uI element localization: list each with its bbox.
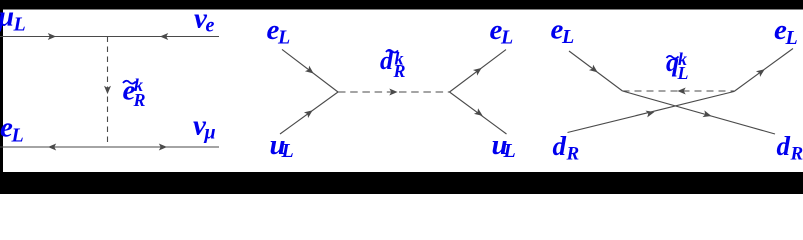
arrow d3 top-left leg — [589, 65, 600, 76]
arrow d3 lower line toward V2 — [646, 109, 656, 118]
arrow d1 top-left (right) — [48, 33, 56, 40]
squark propagator diagram2 (dashed horizontal) — [338, 91, 450, 93]
svg-text:L: L — [561, 26, 574, 48]
svg-text:R: R — [790, 144, 803, 165]
arrow d2 top-right leg — [473, 65, 484, 76]
bottom black strip — [0, 172, 803, 194]
svg-text:e: e — [206, 15, 215, 37]
wire: diagram3 long leg from bottom-left — [568, 92, 735, 133]
svg-text:d: d — [553, 131, 567, 161]
wire: diagram2 top-right leg — [450, 50, 507, 92]
svg-text:L: L — [503, 140, 516, 162]
wire: diagram2 top-left leg — [282, 49, 338, 92]
svg-text:R: R — [566, 144, 580, 165]
label sdown d~R^k — [386, 50, 398, 53]
svg-text:L: L — [281, 140, 294, 162]
svg-text:L: L — [500, 27, 513, 49]
svg-text:L: L — [11, 125, 24, 147]
arrow d1 dashed (down) — [104, 86, 111, 94]
arrow d3 top-right leg — [756, 66, 767, 77]
squark propagator diagram3 (dashed horizontal) — [623, 90, 735, 92]
wire: diagram3 top-left leg — [569, 51, 623, 91]
svg-text:R: R — [393, 61, 406, 81]
wire: diagram1 top fermion line — [0, 36, 219, 38]
wire: diagram3 top-right leg — [734, 49, 793, 92]
left black edge — [0, 0, 3, 194]
wire: diagram1 bottom fermion line — [0, 146, 219, 148]
arrow d2 dashed (right) — [389, 89, 397, 96]
svg-text:L: L — [13, 14, 26, 36]
wire: diagram2 bottom-left leg — [280, 92, 338, 134]
arrow d2 bottom-left leg — [304, 107, 315, 118]
selectron propagator (dashed vertical) — [107, 37, 109, 148]
wire: diagram3 long leg to bottom-right — [623, 91, 776, 134]
svg-text:d: d — [380, 46, 394, 75]
svg-text:R: R — [133, 90, 146, 110]
svg-text:d: d — [777, 131, 791, 161]
svg-text:L: L — [785, 27, 798, 49]
arrow d3 dashed (left) — [677, 88, 685, 95]
arrow d3 lower line toward d_R — [702, 110, 712, 119]
svg-text:μ: μ — [0, 1, 14, 33]
arrow d1 bottom-left (left) — [48, 144, 56, 151]
wire: diagram2 bottom-right leg — [450, 92, 507, 134]
top black strip — [0, 0, 803, 10]
svg-text:L: L — [277, 27, 290, 49]
arrow d1 bottom-right (right) — [159, 144, 167, 151]
svg-text:μ: μ — [204, 122, 216, 144]
arrow d1 top-right (left) — [160, 33, 168, 40]
svg-text:L: L — [677, 63, 689, 83]
arrow d2 bottom-right leg — [474, 108, 485, 119]
label selectron e~R^k — [123, 81, 136, 84]
arrow d2 top-left leg — [305, 66, 316, 77]
label squark q~L^k — [667, 56, 679, 59]
